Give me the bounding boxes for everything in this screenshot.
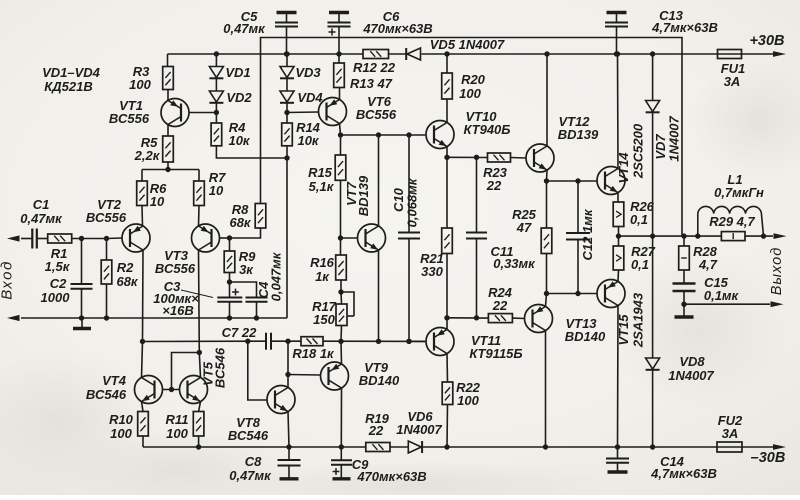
transistor VT11 — [426, 328, 454, 356]
transistor VT15 — [597, 280, 625, 308]
capacitor C12 — [566, 181, 590, 294]
label R10 100 — [110, 426, 132, 441]
junction VD8/rail — [650, 444, 655, 449]
svg-text:3А: 3А — [722, 426, 739, 441]
wire VT6 base node to R14 — [286, 113, 288, 124]
label R27 0,1 — [631, 257, 649, 272]
junction R22/rail — [444, 444, 449, 449]
wire R5 to tail node — [167, 162, 169, 170]
wire mirror bases — [163, 389, 180, 391]
label C11 — [491, 244, 514, 259]
junction C3/gnd — [227, 315, 232, 320]
svg-text:10: 10 — [209, 183, 224, 198]
label C3 — [164, 279, 181, 294]
svg-text:3А: 3А — [724, 74, 741, 89]
svg-text:22: 22 — [486, 178, 502, 193]
svg-text:10к: 10к — [297, 133, 319, 148]
svg-text:150: 150 — [313, 312, 335, 327]
label R2 — [117, 260, 134, 275]
label R2 68k — [116, 274, 138, 289]
svg-text:0,47мк: 0,47мк — [223, 21, 266, 36]
label FU1 3A — [724, 74, 741, 89]
wire R16 to R17 node — [340, 280, 342, 292]
resistor R5 — [163, 136, 174, 162]
label R10 — [109, 412, 134, 427]
junction C2 node — [79, 236, 84, 241]
wire input to C1 — [21, 238, 32, 240]
label R25 47 — [516, 220, 532, 235]
wire VT14 emitter — [617, 193, 619, 203]
label C1 value — [20, 211, 63, 226]
transistor VT8 — [267, 386, 295, 414]
label C15 value — [704, 288, 740, 303]
diode VD5 — [406, 48, 420, 60]
junction C10 bottom — [406, 339, 411, 344]
resistor R13 — [334, 63, 345, 88]
wire R26 to output — [618, 227, 620, 237]
label VT13 BD140 — [565, 329, 606, 344]
svg-text:100: 100 — [459, 86, 481, 101]
wire R4 bottom jog — [216, 146, 287, 158]
diode VD4 — [280, 91, 294, 103]
svg-text:С7 22: С7 22 — [222, 325, 257, 340]
svg-text:×16В: ×16В — [162, 303, 193, 318]
resistor R27 — [613, 236, 624, 270]
wire VT12 collector to rail — [546, 54, 548, 146]
svg-text:BD140: BD140 — [359, 373, 400, 388]
label C9 value — [356, 469, 426, 484]
resistor R8 — [255, 204, 266, 229]
resistor R9 — [224, 238, 235, 273]
junction C10 top — [406, 132, 411, 137]
svg-text:1N4007: 1N4007 — [396, 422, 442, 437]
svg-text:–30В: –30В — [751, 450, 786, 466]
resistor R1 — [48, 234, 72, 243]
junction C6/rail — [336, 51, 341, 56]
svg-text:100: 100 — [457, 393, 479, 408]
svg-text:2SA1943: 2SA1943 — [631, 292, 646, 348]
label C14 value — [650, 466, 717, 481]
label VT6 — [367, 94, 392, 109]
svg-text:R12 22: R12 22 — [353, 60, 396, 75]
svg-text:BD139: BD139 — [558, 127, 599, 142]
wire R22 to rail — [446, 405, 449, 448]
label R16 — [310, 255, 335, 270]
capacitor C6 — [328, 13, 351, 55]
label L1 — [727, 172, 742, 187]
label C9 — [352, 457, 369, 472]
junction VD7/rail — [650, 51, 655, 56]
wire VT13 collector to rail — [545, 331, 547, 448]
svg-text:0,47мк: 0,47мк — [20, 211, 63, 226]
junction VT14/rail — [615, 51, 620, 56]
resistor R24 — [488, 314, 512, 323]
wire R8 bottom jog — [230, 228, 261, 238]
junction C2/gnd — [79, 315, 84, 320]
arrow -30V — [773, 444, 786, 450]
wire VD3-VD4 — [286, 79, 288, 92]
label R5 — [141, 135, 158, 150]
label VT7 BD139 — [356, 175, 371, 216]
label R4 10k — [228, 133, 250, 148]
label VT7 — [344, 181, 359, 206]
wire VT6 base — [287, 111, 319, 114]
svg-text:R11: R11 — [166, 412, 189, 427]
diode VD6 — [408, 441, 422, 453]
junction tail node — [165, 167, 170, 172]
label R23 — [483, 165, 508, 180]
label C10 — [391, 187, 406, 212]
label C5 value — [223, 21, 266, 36]
transistor VT1 — [161, 99, 189, 127]
leader line C3 — [181, 290, 213, 298]
transistor VT10 — [426, 121, 454, 149]
label R9 3k — [239, 262, 254, 277]
resistor R20 — [442, 73, 453, 99]
label R15 5,1k — [309, 179, 335, 194]
wire output to VD8 — [652, 236, 654, 358]
label VT10 KT940 — [464, 122, 511, 137]
svg-text:100: 100 — [110, 426, 132, 441]
wire rail to R13 — [338, 54, 340, 63]
label VT2 BC556 — [86, 210, 127, 225]
junction L1 right — [761, 233, 766, 238]
capacitor C5 — [275, 13, 298, 55]
label R5 2,2k — [134, 148, 161, 163]
wire -30V rail left — [143, 446, 366, 448]
wire VT7 base — [341, 237, 358, 239]
wire ground rail — [21, 317, 287, 319]
wire rail to VD1 — [215, 54, 217, 67]
transistor VT2 — [122, 224, 150, 252]
svg-text:R13 47: R13 47 — [350, 76, 393, 91]
wire emitter node to R24 — [447, 317, 488, 319]
wire VT13 emitter — [546, 294, 547, 307]
wire mirror-out line — [143, 340, 267, 342]
svg-text:R2: R2 — [117, 260, 134, 275]
junction lower bias node — [544, 291, 549, 296]
svg-text:22: 22 — [368, 423, 384, 438]
svg-text:VD8: VD8 — [679, 354, 705, 369]
resistor R16 — [336, 255, 347, 280]
junction R2 node — [104, 236, 109, 241]
label -30В — [751, 450, 786, 466]
wire R6 stub — [141, 170, 143, 182]
wire VD6 to rail — [423, 446, 717, 448]
svg-text:+30В: +30В — [749, 33, 784, 49]
svg-text:330: 330 — [421, 264, 443, 279]
label R18 1k — [292, 346, 335, 361]
arrow output — [774, 233, 787, 239]
svg-text:2SC5200: 2SC5200 — [631, 123, 646, 179]
label C2 — [50, 276, 67, 291]
capacitor C1 — [32, 229, 37, 249]
svg-text:4,7мк×63В: 4,7мк×63В — [650, 466, 717, 481]
wire R27 to VT15 emitter — [617, 270, 620, 282]
label R29 4,7 — [709, 214, 755, 229]
svg-text:4,7: 4,7 — [698, 257, 718, 272]
svg-text:ВС556: ВС556 — [155, 261, 196, 276]
label C2 1000 — [41, 290, 71, 305]
svg-text:100: 100 — [166, 426, 188, 441]
diode VD1 — [209, 67, 223, 79]
svg-text:КД521В: КД521В — [44, 79, 92, 94]
junction VT7 base node — [338, 235, 343, 240]
wire R14 lead down to ground rail — [286, 146, 288, 318]
label VT2 — [97, 197, 122, 212]
junction VT13/rail — [543, 444, 548, 449]
svg-text:22: 22 — [492, 298, 508, 313]
junction VAS input node — [338, 132, 343, 137]
label VT11 KT9115 — [469, 346, 522, 361]
junction C4/gnd — [254, 315, 259, 320]
label R7 — [209, 170, 226, 185]
label R22 — [456, 380, 481, 395]
wire R3 to VT1 emitter — [167, 90, 169, 101]
resistor R10 — [138, 402, 149, 437]
wire R6 to VT2 emitter — [141, 206, 144, 227]
label C4 value — [269, 251, 284, 301]
label R17 150 — [313, 312, 335, 327]
junction VT3 base node — [227, 235, 232, 240]
resistor R7 — [194, 181, 205, 206]
wire VT9 base — [288, 374, 321, 377]
diode VD7 — [646, 101, 660, 113]
arrow ground rail — [7, 315, 20, 321]
wire R20 to VT10 collector — [446, 99, 448, 123]
svg-text:0,7мкГн: 0,7мкГн — [714, 185, 764, 200]
wire R11 to rail — [198, 436, 200, 447]
svg-text:0,1: 0,1 — [631, 257, 649, 272]
resistor R4 — [211, 123, 222, 146]
svg-text:BD140: BD140 — [565, 329, 606, 344]
label R4 — [229, 120, 246, 135]
label R14 10k — [297, 133, 319, 148]
label C11 value — [493, 256, 536, 271]
label R8 68k — [229, 215, 251, 230]
svg-text:R20: R20 — [461, 72, 486, 87]
fuse FU2 — [717, 442, 742, 452]
wire lower bias to VT15 base — [547, 293, 598, 295]
ground symbol input — [73, 318, 91, 329]
wire VT11 base — [409, 340, 426, 342]
wire tail horizontal — [142, 169, 199, 171]
label R17 — [312, 299, 337, 314]
wire output line — [619, 235, 722, 237]
wire +30V rail left section — [168, 53, 364, 55]
svg-text:С8: С8 — [245, 454, 262, 469]
label C10 value — [405, 177, 420, 227]
junction upper bias node — [544, 178, 549, 183]
svg-text:1к: 1к — [315, 269, 330, 284]
resistor R15 — [335, 155, 346, 180]
svg-text:1000: 1000 — [41, 290, 71, 305]
junction VT9 emitter node — [338, 339, 343, 344]
junction VT9 base node — [285, 372, 290, 377]
junction R20/rail — [444, 51, 449, 56]
junction VT6 base node — [284, 110, 289, 115]
junction feedback/output — [681, 233, 686, 238]
transistor VT7 — [358, 224, 386, 252]
wire VT7 emitter down — [378, 250, 380, 341]
capacitor C14 — [606, 447, 629, 472]
wire R24 to VT13 base — [512, 317, 525, 319]
wire rail to VD7 — [652, 54, 654, 101]
resistor R3 — [163, 67, 174, 90]
resistor R19 — [366, 443, 390, 452]
label C15 — [704, 275, 729, 290]
svg-text:0,068мк: 0,068мк — [405, 177, 420, 227]
svg-text:ВС546: ВС546 — [213, 347, 228, 388]
wire to VT2 base — [107, 237, 123, 240]
label VD4 — [297, 90, 323, 105]
wire VT1 base node to R4 — [215, 113, 217, 124]
label C12 1mk — [580, 208, 595, 260]
svg-text:2,2к: 2,2к — [134, 148, 161, 163]
svg-text:0,33мк: 0,33мк — [493, 256, 536, 271]
wire -30V rail right — [742, 446, 774, 448]
capacitor C8 — [278, 447, 301, 479]
label C13 value — [651, 20, 718, 35]
junction R11/-rail — [196, 444, 201, 449]
wire VT10 emitter — [446, 147, 448, 158]
label C8 — [245, 454, 262, 469]
svg-text:68к: 68к — [229, 215, 251, 230]
wire R19 to VD6 — [390, 446, 409, 448]
svg-text:ВС546: ВС546 — [228, 428, 269, 443]
label FU2 — [718, 413, 743, 428]
resistor R29 — [721, 232, 745, 241]
junction C13/rail — [614, 51, 619, 56]
wire VD1-VD2 — [215, 79, 217, 92]
svg-text:1N4007: 1N4007 — [668, 368, 714, 383]
wire VT10 emitter to R21 — [446, 157, 448, 228]
label VT5 BC546 — [213, 347, 228, 388]
label C13 — [659, 8, 684, 23]
label L1 value — [714, 185, 764, 200]
capacitor C13 — [605, 13, 628, 55]
junction output return — [681, 302, 686, 307]
label R1 — [51, 246, 68, 261]
label VT6 BC556 — [356, 107, 397, 122]
wire R7 stub — [198, 170, 200, 182]
resistor R17 trimmer — [336, 292, 354, 326]
svg-text:VD5 1N4007: VD5 1N4007 — [430, 37, 505, 52]
label R24 22 — [492, 298, 508, 313]
label FU1 — [721, 61, 746, 76]
capacitor C11 — [466, 157, 487, 317]
wire R17 to line — [340, 326, 343, 342]
wire R18 to VAS-low node — [323, 340, 426, 342]
wire rail to R20 — [446, 54, 448, 73]
wire C7 to VT8 collector node — [271, 340, 301, 342]
label R26 — [630, 199, 655, 214]
label R23 22 — [486, 178, 502, 193]
wire VD2 to node — [215, 103, 217, 113]
svg-text:0,1мк: 0,1мк — [704, 288, 740, 303]
svg-text:R29 4,7: R29 4,7 — [709, 214, 755, 229]
label VD7 — [653, 134, 668, 160]
svg-text:1N4007: 1N4007 — [667, 115, 682, 161]
junction VT11 emitter node — [444, 315, 449, 320]
wire feedback top — [261, 38, 683, 237]
svg-text:R15: R15 — [308, 165, 333, 180]
label VT11 — [471, 333, 501, 348]
label VT12 — [558, 114, 590, 129]
transistor VT6 — [319, 98, 347, 126]
label C5 — [241, 9, 258, 24]
label VT15 — [616, 314, 631, 346]
junction VT5 collector node — [197, 350, 202, 355]
junction VT7 collector/VAS — [376, 132, 381, 137]
junction VT12/rail — [544, 51, 549, 56]
svg-text:VD2: VD2 — [226, 90, 252, 105]
label VT14 2SC5200 — [631, 123, 646, 179]
wire emitter node to R23 — [447, 156, 488, 158]
label FU2 3A — [722, 426, 739, 441]
label C6 value — [362, 21, 432, 36]
label VT9 BD140 — [359, 373, 400, 388]
label R21 330 — [421, 264, 443, 279]
resistor R25 — [541, 181, 552, 254]
wire VT15 collector to rail — [617, 306, 620, 448]
wire VT1 base — [189, 112, 216, 114]
label R25 — [512, 207, 537, 222]
label R24 — [488, 285, 513, 300]
svg-text:С12 1мк: С12 1мк — [580, 208, 595, 260]
resistor R22 — [442, 382, 453, 405]
svg-text:1,5к: 1,5к — [45, 259, 71, 274]
transistor VT12 — [526, 144, 554, 172]
label VT12 BD139 — [558, 127, 599, 142]
junction C14/rail — [615, 444, 620, 449]
label Vyhod — [769, 247, 785, 296]
label VD6 — [407, 409, 433, 424]
svg-text:0,1: 0,1 — [630, 212, 648, 227]
label R8 — [232, 202, 249, 217]
label R16 1k — [315, 269, 330, 284]
label C3 value1 — [153, 291, 199, 306]
junction C11 bottom — [474, 315, 479, 320]
junction VT1 base node — [214, 110, 219, 115]
svg-text:10: 10 — [150, 194, 165, 209]
label VT3 BC556 — [155, 261, 196, 276]
arrow input signal — [7, 235, 20, 241]
junction R2/gnd — [104, 315, 109, 320]
wire VT11 emitter — [446, 318, 448, 330]
label R28 — [693, 244, 718, 259]
arrow +30V rail output — [773, 51, 786, 57]
capacitor C3 — [217, 282, 242, 318]
wire VD7 to output — [652, 113, 654, 236]
junction L1 left — [695, 233, 700, 238]
wire VT8 base drop — [248, 341, 267, 400]
wire VT9 collector down — [340, 388, 342, 447]
label VT8 BC546 — [228, 428, 269, 443]
resistor R2 — [101, 239, 112, 319]
wire VT5 collector — [199, 353, 200, 378]
svg-text:10к: 10к — [228, 133, 250, 148]
svg-text:С2: С2 — [50, 276, 67, 291]
wire R10 to -30V rail — [142, 436, 144, 447]
label C4 — [256, 281, 271, 298]
svg-text:ВС556: ВС556 — [109, 111, 150, 126]
junction C5/rail — [284, 51, 289, 56]
wire +30V rail right section — [422, 53, 777, 55]
diode VD2 — [209, 91, 223, 103]
fuse FU1 — [718, 50, 742, 59]
label R7 10 — [209, 183, 224, 198]
